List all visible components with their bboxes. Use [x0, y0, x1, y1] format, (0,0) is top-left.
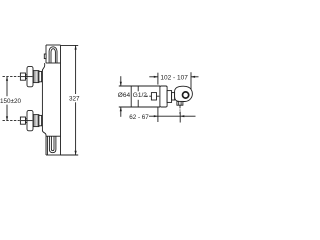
svg-text:327: 327	[69, 96, 80, 103]
svg-text:150±20: 150±20	[0, 98, 21, 105]
svg-text:62 - 67: 62 - 67	[129, 114, 149, 121]
svg-text:G1/2: G1/2	[133, 92, 147, 99]
svg-text:102 - 107: 102 - 107	[160, 74, 188, 81]
svg-text:Ø64: Ø64	[118, 92, 131, 99]
